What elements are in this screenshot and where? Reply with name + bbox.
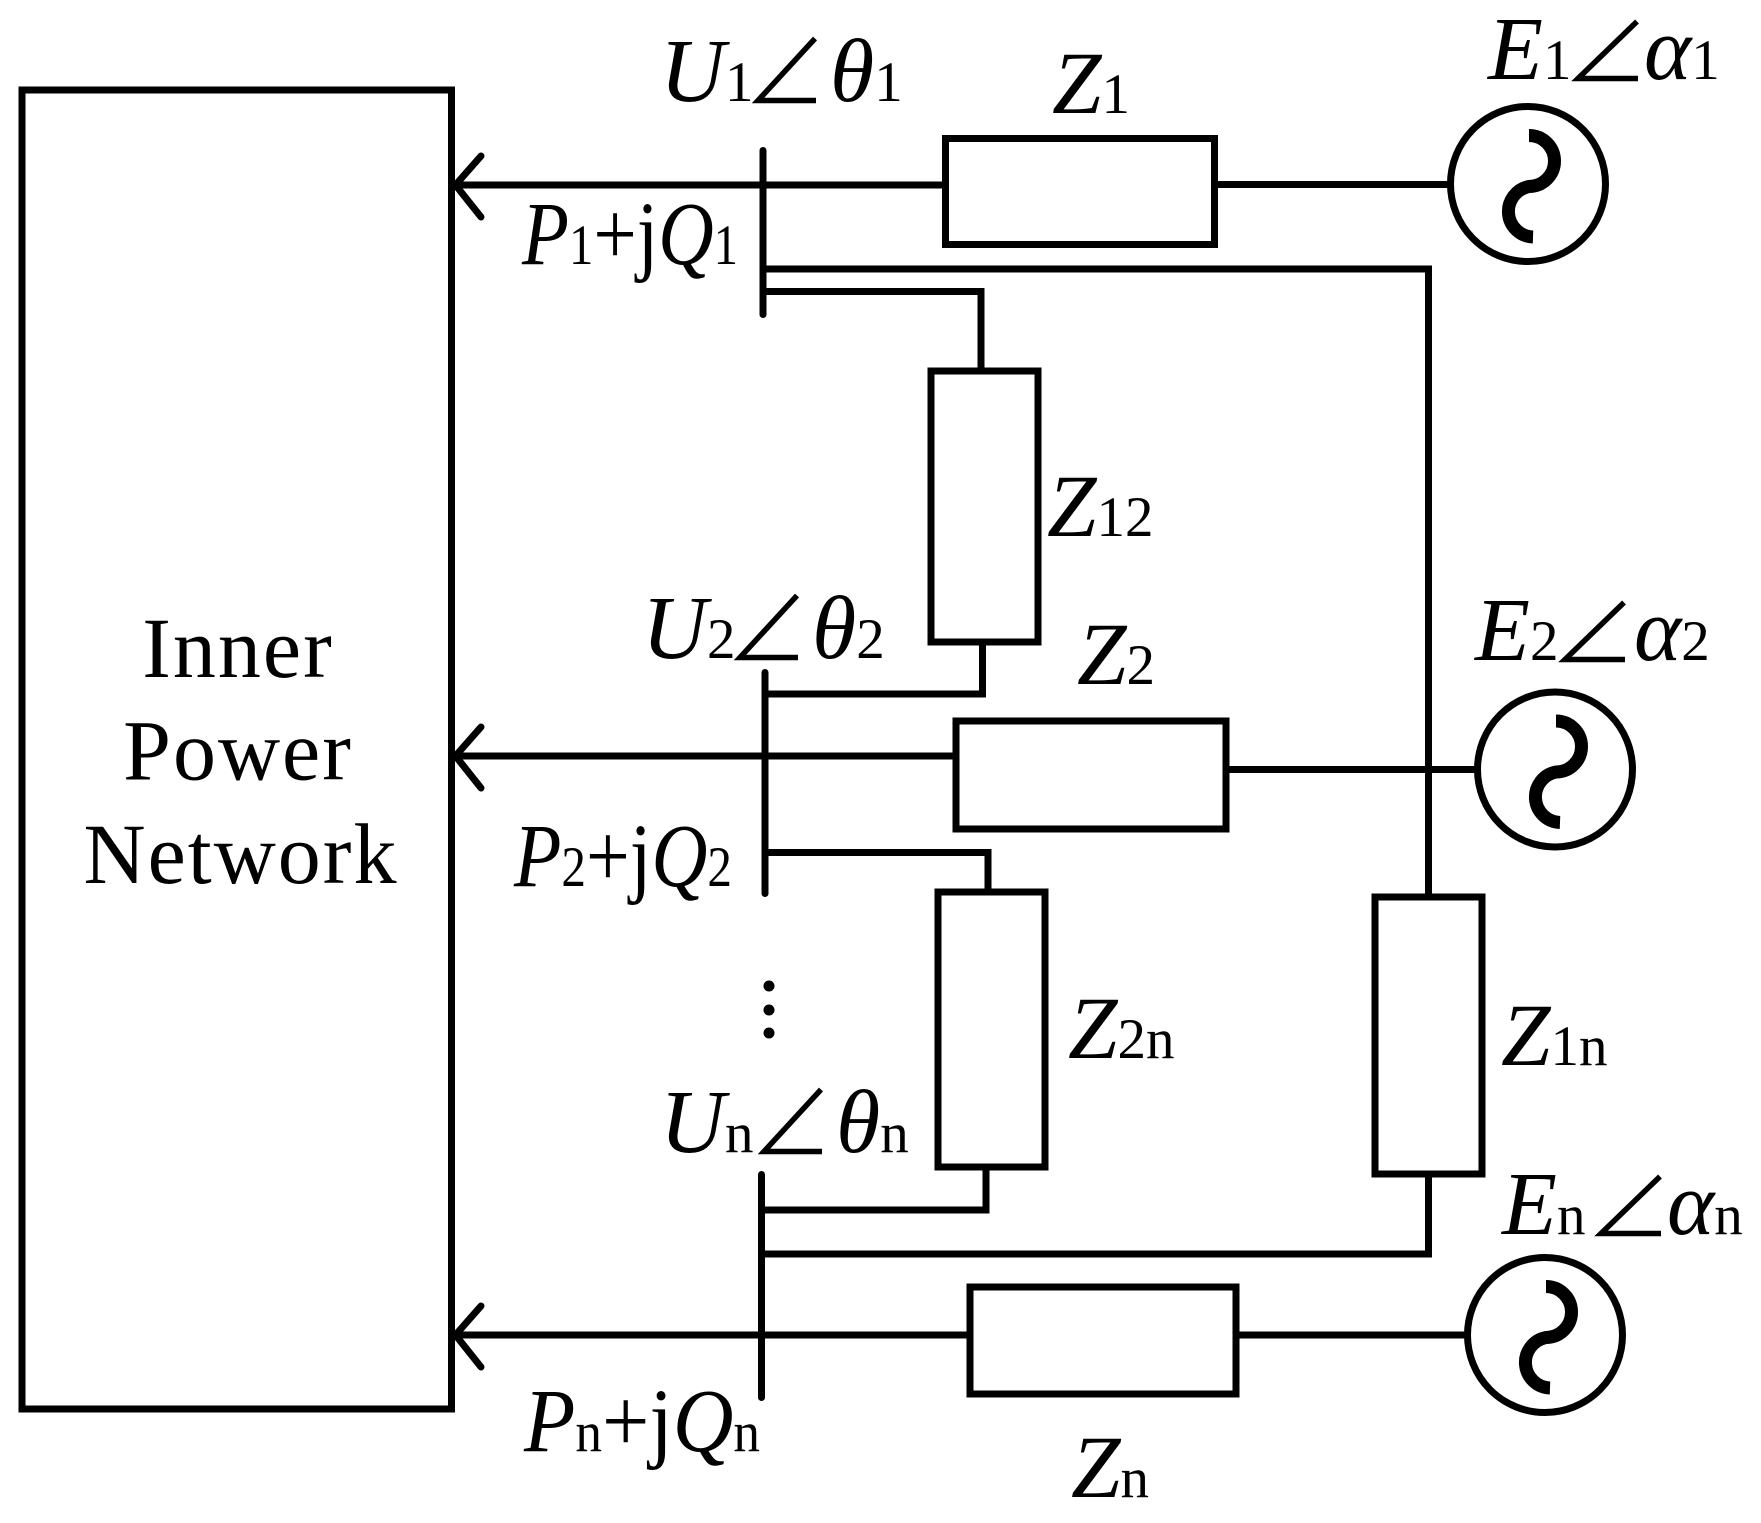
AC source E1 circle xyxy=(1451,107,1606,262)
bus U2 xyxy=(762,673,769,894)
resistor Z1 xyxy=(946,139,1215,245)
svg-text:E1: E1 xyxy=(1486,0,1571,99)
resistor Z1n xyxy=(1375,897,1482,1174)
AC source E2 circle xyxy=(1478,692,1633,847)
svg-text:P1+jQ1: P1+jQ1 xyxy=(521,185,738,284)
wire Z2 to E2 xyxy=(1226,766,1480,773)
Inner Power Network box xyxy=(22,90,452,1409)
angle symbol U2 xyxy=(740,596,798,658)
svg-text:Z12: Z12 xyxy=(1047,458,1154,556)
svg-text:U2: U2 xyxy=(642,579,736,678)
wire bus1 to Z12 xyxy=(763,292,981,372)
svg-text:α1: α1 xyxy=(1644,0,1720,99)
svg-text:Power: Power xyxy=(123,703,353,799)
resistor Zn xyxy=(970,1287,1236,1394)
AC source E2 sine xyxy=(1535,721,1581,823)
svg-text:Inner: Inner xyxy=(142,600,333,696)
angle symbol E1 xyxy=(1578,22,1638,79)
resistor Z2 xyxy=(956,721,1226,829)
svg-text:En: En xyxy=(1500,1155,1585,1254)
wire Z12 to bus2 xyxy=(765,642,983,694)
svg-text:θn: θn xyxy=(836,1073,909,1172)
arrowhead P1 xyxy=(456,156,482,217)
wire Pn arrow line xyxy=(455,1332,970,1339)
wire Z2n to busN xyxy=(762,1167,987,1210)
svg-text:α2: α2 xyxy=(1634,581,1710,680)
wire bus1 to Z1n branch xyxy=(763,269,1429,897)
svg-text:Z1n: Z1n xyxy=(1501,987,1608,1085)
svg-text:Zn: Zn xyxy=(1071,1419,1149,1517)
bus U1 xyxy=(760,151,767,315)
resistor Z12 xyxy=(931,371,1038,642)
svg-text:αn: αn xyxy=(1667,1155,1743,1254)
angle symbol E2 xyxy=(1565,603,1625,660)
svg-text:Z2: Z2 xyxy=(1077,606,1155,704)
svg-text:θ2: θ2 xyxy=(812,579,885,678)
bus Un xyxy=(758,1175,765,1398)
svg-text:U1: U1 xyxy=(660,22,754,121)
angle symbol En xyxy=(1601,1177,1661,1234)
label Inner Power Network xyxy=(84,600,399,902)
wire Z1n to busN xyxy=(762,1174,1429,1254)
svg-text:Network: Network xyxy=(84,806,399,902)
svg-text:Un: Un xyxy=(660,1073,754,1172)
wire bus2 to Z2n xyxy=(765,853,988,893)
svg-text:θ1: θ1 xyxy=(830,22,903,121)
arrowhead P2 xyxy=(456,727,482,788)
svg-text:Pn+jQn: Pn+jQn xyxy=(523,1372,760,1471)
arrowhead Pn xyxy=(456,1306,482,1367)
wire Zn to En xyxy=(1236,1332,1470,1339)
vertical ellipsis dots xyxy=(764,981,775,1039)
AC source E1 sine xyxy=(1508,136,1554,238)
angle symbol U1 xyxy=(758,39,816,101)
svg-text:Z1: Z1 xyxy=(1052,35,1130,133)
wire Z1 to E1 xyxy=(1215,181,1453,188)
svg-text:E2: E2 xyxy=(1473,581,1558,680)
wire P2 arrow line xyxy=(455,753,956,760)
wire P1 arrow line xyxy=(455,182,945,189)
AC source En sine xyxy=(1525,1287,1571,1389)
resistor Z2n xyxy=(938,892,1045,1167)
svg-text:Z2n: Z2n xyxy=(1068,980,1175,1078)
AC source En circle xyxy=(1468,1258,1623,1413)
angle symbol Un xyxy=(764,1090,822,1152)
svg-text:P2+jQ2: P2+jQ2 xyxy=(513,807,732,906)
